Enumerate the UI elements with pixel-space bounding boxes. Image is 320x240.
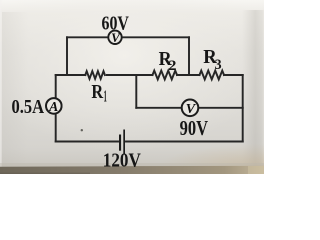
wire: left branch vertical from top wire down to middle wire	[66, 37, 68, 75]
svg-text:120V: 120V	[103, 150, 141, 172]
svg-text:1: 1	[104, 87, 107, 106]
ammeter A1 (0.5A)	[46, 98, 62, 114]
wire: middle wire between R1 and R2	[107, 74, 153, 76]
svg-text:3: 3	[215, 57, 222, 73]
svg-text:R: R	[91, 81, 103, 103]
wire: 90V loop horizontal	[136, 107, 242, 109]
wire: bottom wire right of battery	[126, 141, 243, 143]
battery 120V	[120, 130, 125, 155]
svg-text:60V: 60V	[102, 12, 130, 34]
wire: 90V loop left vertical	[135, 75, 137, 108]
resistor R3	[200, 71, 225, 80]
wire: left rail through ammeter	[55, 75, 57, 142]
wire: branch from top wire to node between R2 and R3	[188, 37, 190, 75]
voltmeter U2 (90V)	[182, 100, 199, 118]
wire: bottom wire left of battery	[56, 141, 118, 143]
paper background	[0, 0, 264, 174]
wire: top wire from node A to node B	[67, 36, 189, 38]
svg-text:0.5A: 0.5A	[12, 96, 45, 118]
resistor R1	[85, 71, 105, 79]
wire: right rail	[242, 75, 244, 142]
wire: middle wire between R2 and R3	[177, 74, 200, 76]
paper speck	[81, 129, 83, 131]
svg-text:A: A	[48, 99, 58, 114]
svg-text:90V: 90V	[180, 116, 209, 140]
wire: middle wire right segment to right rail	[224, 74, 243, 76]
svg-text:2: 2	[168, 58, 176, 74]
voltmeter U1 (60V)	[108, 30, 121, 45]
resistor R2	[153, 71, 178, 80]
wire: middle wire left segment	[56, 74, 86, 76]
